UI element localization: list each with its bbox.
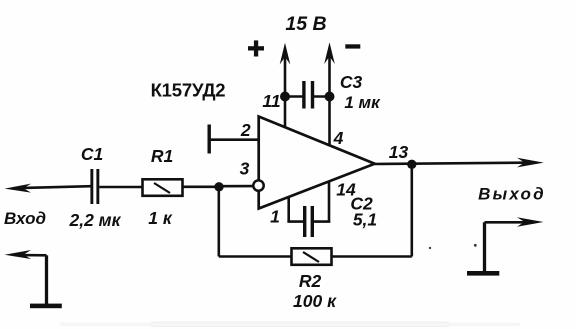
- capacitor C2: [303, 206, 314, 237]
- resistor R1: [143, 179, 183, 196]
- svg-text:100 к: 100 к: [293, 291, 337, 311]
- svg-text:1 к: 1 к: [148, 208, 173, 228]
- wire: R2 left to node A: [219, 255, 292, 258]
- wire: pin 1 to C2 left: [287, 220, 303, 223]
- ground: output side: [467, 271, 499, 276]
- svg-text:15 В: 15 В: [285, 13, 326, 35]
- capacitor C1: [90, 169, 99, 204]
- wire: supply node to C3 left: [285, 95, 304, 98]
- wire: C3 right to supply node: [313, 95, 330, 98]
- wire: input line: [5, 184, 92, 193]
- wire: pin 2: [209, 138, 259, 141]
- wire: feedback vertical from output node: [410, 164, 413, 256]
- svg-text:1 мк: 1 мк: [344, 93, 381, 112]
- svg-text:4: 4: [333, 128, 344, 148]
- svg-text:К157УД2: К157УД2: [151, 80, 226, 101]
- wire: negative supply arrow up: [324, 42, 335, 96]
- wire: node A down leg: [218, 187, 221, 257]
- wire: pin 11 to positive supply node: [284, 97, 287, 129]
- wire: C2 right to pin 14: [313, 220, 331, 223]
- node B output junction dot: [407, 160, 416, 169]
- svg-text:2: 2: [240, 120, 251, 140]
- wire: C1 to R1: [99, 186, 142, 189]
- wire: pin 4 to negative supply node: [328, 97, 331, 147]
- speck 1: [429, 247, 431, 249]
- svg-text:R2: R2: [299, 271, 322, 291]
- wire: R1 to node A: [183, 186, 220, 189]
- svg-text:11: 11: [262, 91, 280, 111]
- ground: input side: [30, 304, 62, 309]
- op-amp inverting input bubble pin 3: [253, 180, 263, 190]
- node: positive supply junction: [280, 92, 290, 102]
- wire: positive supply arrow up: [280, 43, 291, 97]
- svg-text:1: 1: [270, 207, 280, 227]
- op-amp U1 triangle: [259, 117, 375, 209]
- resistor R2: [292, 248, 332, 264]
- capacitor C3: [302, 81, 314, 109]
- common bar at pin 2: [208, 125, 211, 154]
- svg-text:Выход: Выход: [478, 185, 546, 204]
- svg-text:Вход: Вход: [4, 209, 46, 228]
- paper smudge bottom: [150, 322, 450, 328]
- svg-text:C3: C3: [340, 72, 363, 92]
- wire: node A to inverting input bubble: [219, 185, 258, 188]
- svg-text:5,1: 5,1: [353, 210, 377, 230]
- svg-text:C1: C1: [81, 144, 103, 164]
- svg-text:R1: R1: [151, 146, 173, 166]
- speck 2: [474, 244, 477, 247]
- svg-text:13: 13: [389, 142, 409, 162]
- wire: feedback to R2 right: [332, 255, 412, 258]
- wire: pin 1 down: [287, 197, 290, 222]
- svg-text:2,2 мк: 2,2 мк: [68, 210, 121, 230]
- label plus: [248, 40, 264, 56]
- node: negative supply junction: [325, 92, 335, 102]
- wire: pin 14 down: [328, 182, 331, 222]
- wire: input ground arrow: [5, 250, 47, 304]
- label minus: [345, 44, 360, 48]
- wire: output from op-amp apex: [375, 158, 544, 168]
- node A junction dot: [214, 182, 223, 191]
- wire: output ground arrow: [485, 217, 544, 271]
- svg-text:3: 3: [240, 159, 250, 179]
